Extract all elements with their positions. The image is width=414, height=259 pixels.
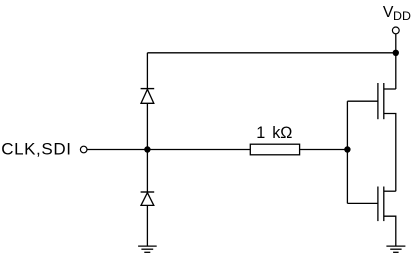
svg-text:DD: DD [393,9,411,23]
svg-text:CLK,SDI: CLK,SDI [1,139,71,158]
svg-text:kΩ: kΩ [272,124,292,142]
svg-text:1: 1 [256,124,265,142]
